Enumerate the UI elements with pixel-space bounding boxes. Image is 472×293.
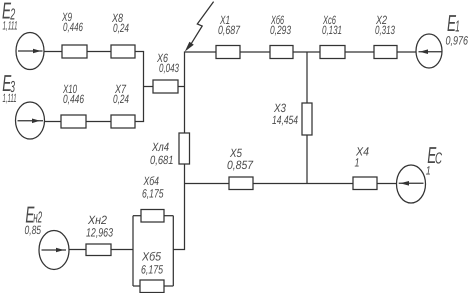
resistor Xb5 bbox=[140, 280, 164, 293]
wire main vertical to Xl4 bbox=[184, 87, 186, 134]
svg-text:1: 1 bbox=[426, 164, 431, 178]
wire block to main vertical bbox=[173, 184, 184, 250]
wire X2 to E1 bbox=[397, 51, 416, 53]
label Ec value 1 bbox=[426, 142, 442, 177]
source En2 bbox=[39, 231, 69, 270]
svg-text:12,963: 12,963 bbox=[86, 226, 113, 240]
wire Xc6 to X2 bbox=[345, 51, 374, 53]
resistor X10 bbox=[61, 115, 86, 128]
label Xb5 value 6,175 bbox=[141, 250, 163, 277]
resistor X2 bbox=[374, 46, 397, 59]
wire E2 to X9 bbox=[44, 51, 62, 53]
wire X3 branch lower bbox=[306, 135, 308, 184]
source E2 bbox=[16, 33, 44, 70]
label X2 value 0,313 bbox=[375, 13, 395, 37]
label X9 value 0,446 bbox=[61, 10, 83, 34]
wire parallel block left side bbox=[132, 216, 134, 286]
label E2 value 1,111 bbox=[2, 0, 18, 33]
wire Xn2 to parallel block bbox=[111, 249, 133, 251]
label Xb6 value 0,293 bbox=[270, 13, 291, 37]
label E3 value 1,111 bbox=[2, 70, 16, 105]
wire X6 to main vertical bbox=[178, 86, 185, 88]
label X3 value 14,454 bbox=[272, 101, 298, 127]
label X1 value 0,687 bbox=[218, 13, 241, 37]
svg-text:Xл4: Xл4 bbox=[151, 140, 169, 154]
wire bottom side to Xb5 bbox=[133, 285, 140, 287]
label X8 value 0,24 bbox=[111, 11, 129, 35]
svg-text:14,454: 14,454 bbox=[272, 113, 298, 127]
resistor X5 bbox=[229, 177, 253, 190]
wire Xb4 to right side bbox=[164, 215, 173, 217]
wire E3 to X10 bbox=[45, 121, 62, 123]
label E1 value 0,976 bbox=[446, 10, 469, 48]
svg-text:6,175: 6,175 bbox=[141, 263, 163, 277]
svg-text:1,111: 1,111 bbox=[3, 19, 18, 33]
wire X3 branch upper bbox=[306, 52, 308, 103]
svg-text:0,446: 0,446 bbox=[63, 20, 83, 34]
resistor X9 bbox=[62, 45, 87, 58]
wire X7 to left junction bbox=[135, 121, 144, 123]
resistor Xb6 bbox=[270, 46, 293, 59]
svg-text:0,857: 0,857 bbox=[227, 158, 254, 172]
wire X10 to X7 bbox=[86, 121, 111, 123]
short-circuit bolt bbox=[185, 2, 214, 52]
svg-text:0,976: 0,976 bbox=[446, 34, 469, 48]
svg-text:6,175: 6,175 bbox=[142, 186, 164, 200]
svg-text:1,111: 1,111 bbox=[3, 91, 17, 105]
resistor Xc6 bbox=[320, 46, 345, 59]
resistor Xn2 bbox=[86, 244, 111, 256]
svg-text:0,293: 0,293 bbox=[270, 23, 291, 37]
svg-text:0,446: 0,446 bbox=[63, 92, 84, 106]
wire bottom node to X5 bbox=[185, 183, 230, 185]
node K fault corner bbox=[185, 52, 217, 87]
svg-text:0,24: 0,24 bbox=[113, 92, 129, 106]
svg-text:0,24: 0,24 bbox=[113, 21, 129, 35]
resistor X1 bbox=[216, 46, 240, 59]
wire X1 to Xb6 bbox=[240, 51, 270, 53]
wire junction to X6 bbox=[144, 86, 154, 88]
svg-text:0,681: 0,681 bbox=[150, 153, 174, 167]
label Xc6 value 0,131 bbox=[322, 13, 342, 37]
wire X5 to X4 across X3 junction bbox=[253, 183, 353, 185]
resistor X7 bbox=[111, 115, 135, 128]
source E3 bbox=[16, 102, 45, 139]
svg-text:1: 1 bbox=[355, 156, 360, 170]
label Xn2 value 12,963 bbox=[86, 213, 113, 240]
wire Xl4 to bottom junction bbox=[184, 164, 186, 184]
label X7 value 0,24 bbox=[113, 82, 129, 106]
label Xb4 value 6,175 bbox=[142, 174, 164, 200]
label Xl4 value 0,681 bbox=[150, 140, 174, 167]
resistor X3 vertical bbox=[302, 103, 312, 135]
wire Xb6 to Xc6 with X3 junction bbox=[293, 51, 320, 53]
resistor X8 bbox=[111, 45, 135, 58]
label X10 value 0,446 bbox=[62, 82, 84, 106]
label X4 value 1 bbox=[355, 145, 370, 170]
wire top side to Xb4 bbox=[133, 215, 141, 217]
label X5 value 0,857 bbox=[227, 146, 254, 172]
svg-text:С: С bbox=[435, 150, 442, 167]
resistor X4 bbox=[353, 177, 377, 190]
wire X9 to X8 bbox=[87, 51, 111, 53]
svg-text:0,313: 0,313 bbox=[375, 23, 395, 37]
source Ec bbox=[397, 165, 426, 203]
svg-text:0,687: 0,687 bbox=[218, 23, 241, 37]
svg-text:0,043: 0,043 bbox=[159, 61, 179, 75]
svg-text:0,85: 0,85 bbox=[25, 223, 42, 237]
wire En2 to Xn2 bbox=[69, 249, 86, 251]
label En2 value 0,85 bbox=[25, 201, 43, 237]
svg-text:Xб5: Xб5 bbox=[141, 250, 161, 264]
resistor Xl4 vertical bbox=[179, 133, 190, 164]
label X6 value 0,043 bbox=[156, 51, 179, 75]
wire parallel block right side bbox=[172, 216, 174, 286]
svg-text:0,131: 0,131 bbox=[322, 23, 342, 37]
wire X4 to Ec bbox=[377, 183, 397, 185]
wire left junction vertical bbox=[143, 52, 145, 122]
source E1 bbox=[416, 34, 442, 68]
wire X8 to left junction bbox=[135, 51, 144, 53]
resistor Xb4 bbox=[141, 210, 164, 223]
wire Xb5 to right side bbox=[164, 285, 173, 287]
resistor X6 bbox=[153, 80, 178, 93]
